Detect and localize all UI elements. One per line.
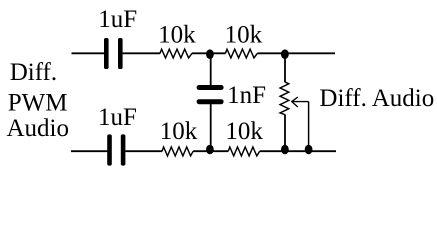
- svg-text:10k: 10k: [160, 118, 198, 145]
- svg-text:1uF: 1uF: [98, 6, 137, 33]
- svg-text:Audio: Audio: [6, 115, 68, 142]
- svg-text:Diff. Audio: Diff. Audio: [319, 85, 434, 112]
- svg-text:1uF: 1uF: [98, 104, 137, 131]
- potentiometer R5 wiper arrow: [292, 97, 309, 107]
- resistor R4: [228, 147, 260, 156]
- wire C3 down to bottom node C: [210, 104, 212, 151]
- wire R2 to node B and output top: [257, 52, 335, 54]
- wire R3 to node C and R4: [193, 150, 228, 152]
- svg-text:10k: 10k: [225, 118, 263, 145]
- wire R4 to node D and output bottom: [260, 150, 336, 152]
- junction node E wiper return: [305, 145, 313, 155]
- wire node A down to C3: [210, 53, 212, 85]
- wire wiper down to node E: [308, 102, 310, 152]
- junction node D: [281, 145, 289, 155]
- wire top input: [72, 52, 105, 54]
- capacitor C1: [104, 38, 123, 69]
- wire node B down to potentiometer R5: [284, 53, 286, 82]
- resistor R3: [162, 147, 193, 156]
- svg-text:PWM: PWM: [8, 89, 68, 116]
- wire R1 to node A and R2: [192, 52, 226, 54]
- wire R5 down to node D: [284, 115, 286, 152]
- svg-text:10k: 10k: [158, 21, 196, 48]
- svg-text:10k: 10k: [225, 21, 263, 48]
- resistor R2: [225, 49, 257, 58]
- capacitor C3: [197, 85, 224, 104]
- wire C2 to R3: [125, 150, 162, 152]
- potentiometer R5 body: [280, 82, 289, 115]
- junction node B: [281, 49, 289, 59]
- wire C1 to R1: [123, 52, 161, 54]
- junction node C: [206, 145, 214, 155]
- wire bottom input: [71, 150, 107, 152]
- capacitor C2: [107, 134, 125, 165]
- svg-text:Diff.: Diff.: [10, 59, 57, 86]
- junction node A: [206, 49, 214, 59]
- resistor R1: [160, 49, 192, 58]
- svg-text:1nF: 1nF: [227, 82, 266, 109]
